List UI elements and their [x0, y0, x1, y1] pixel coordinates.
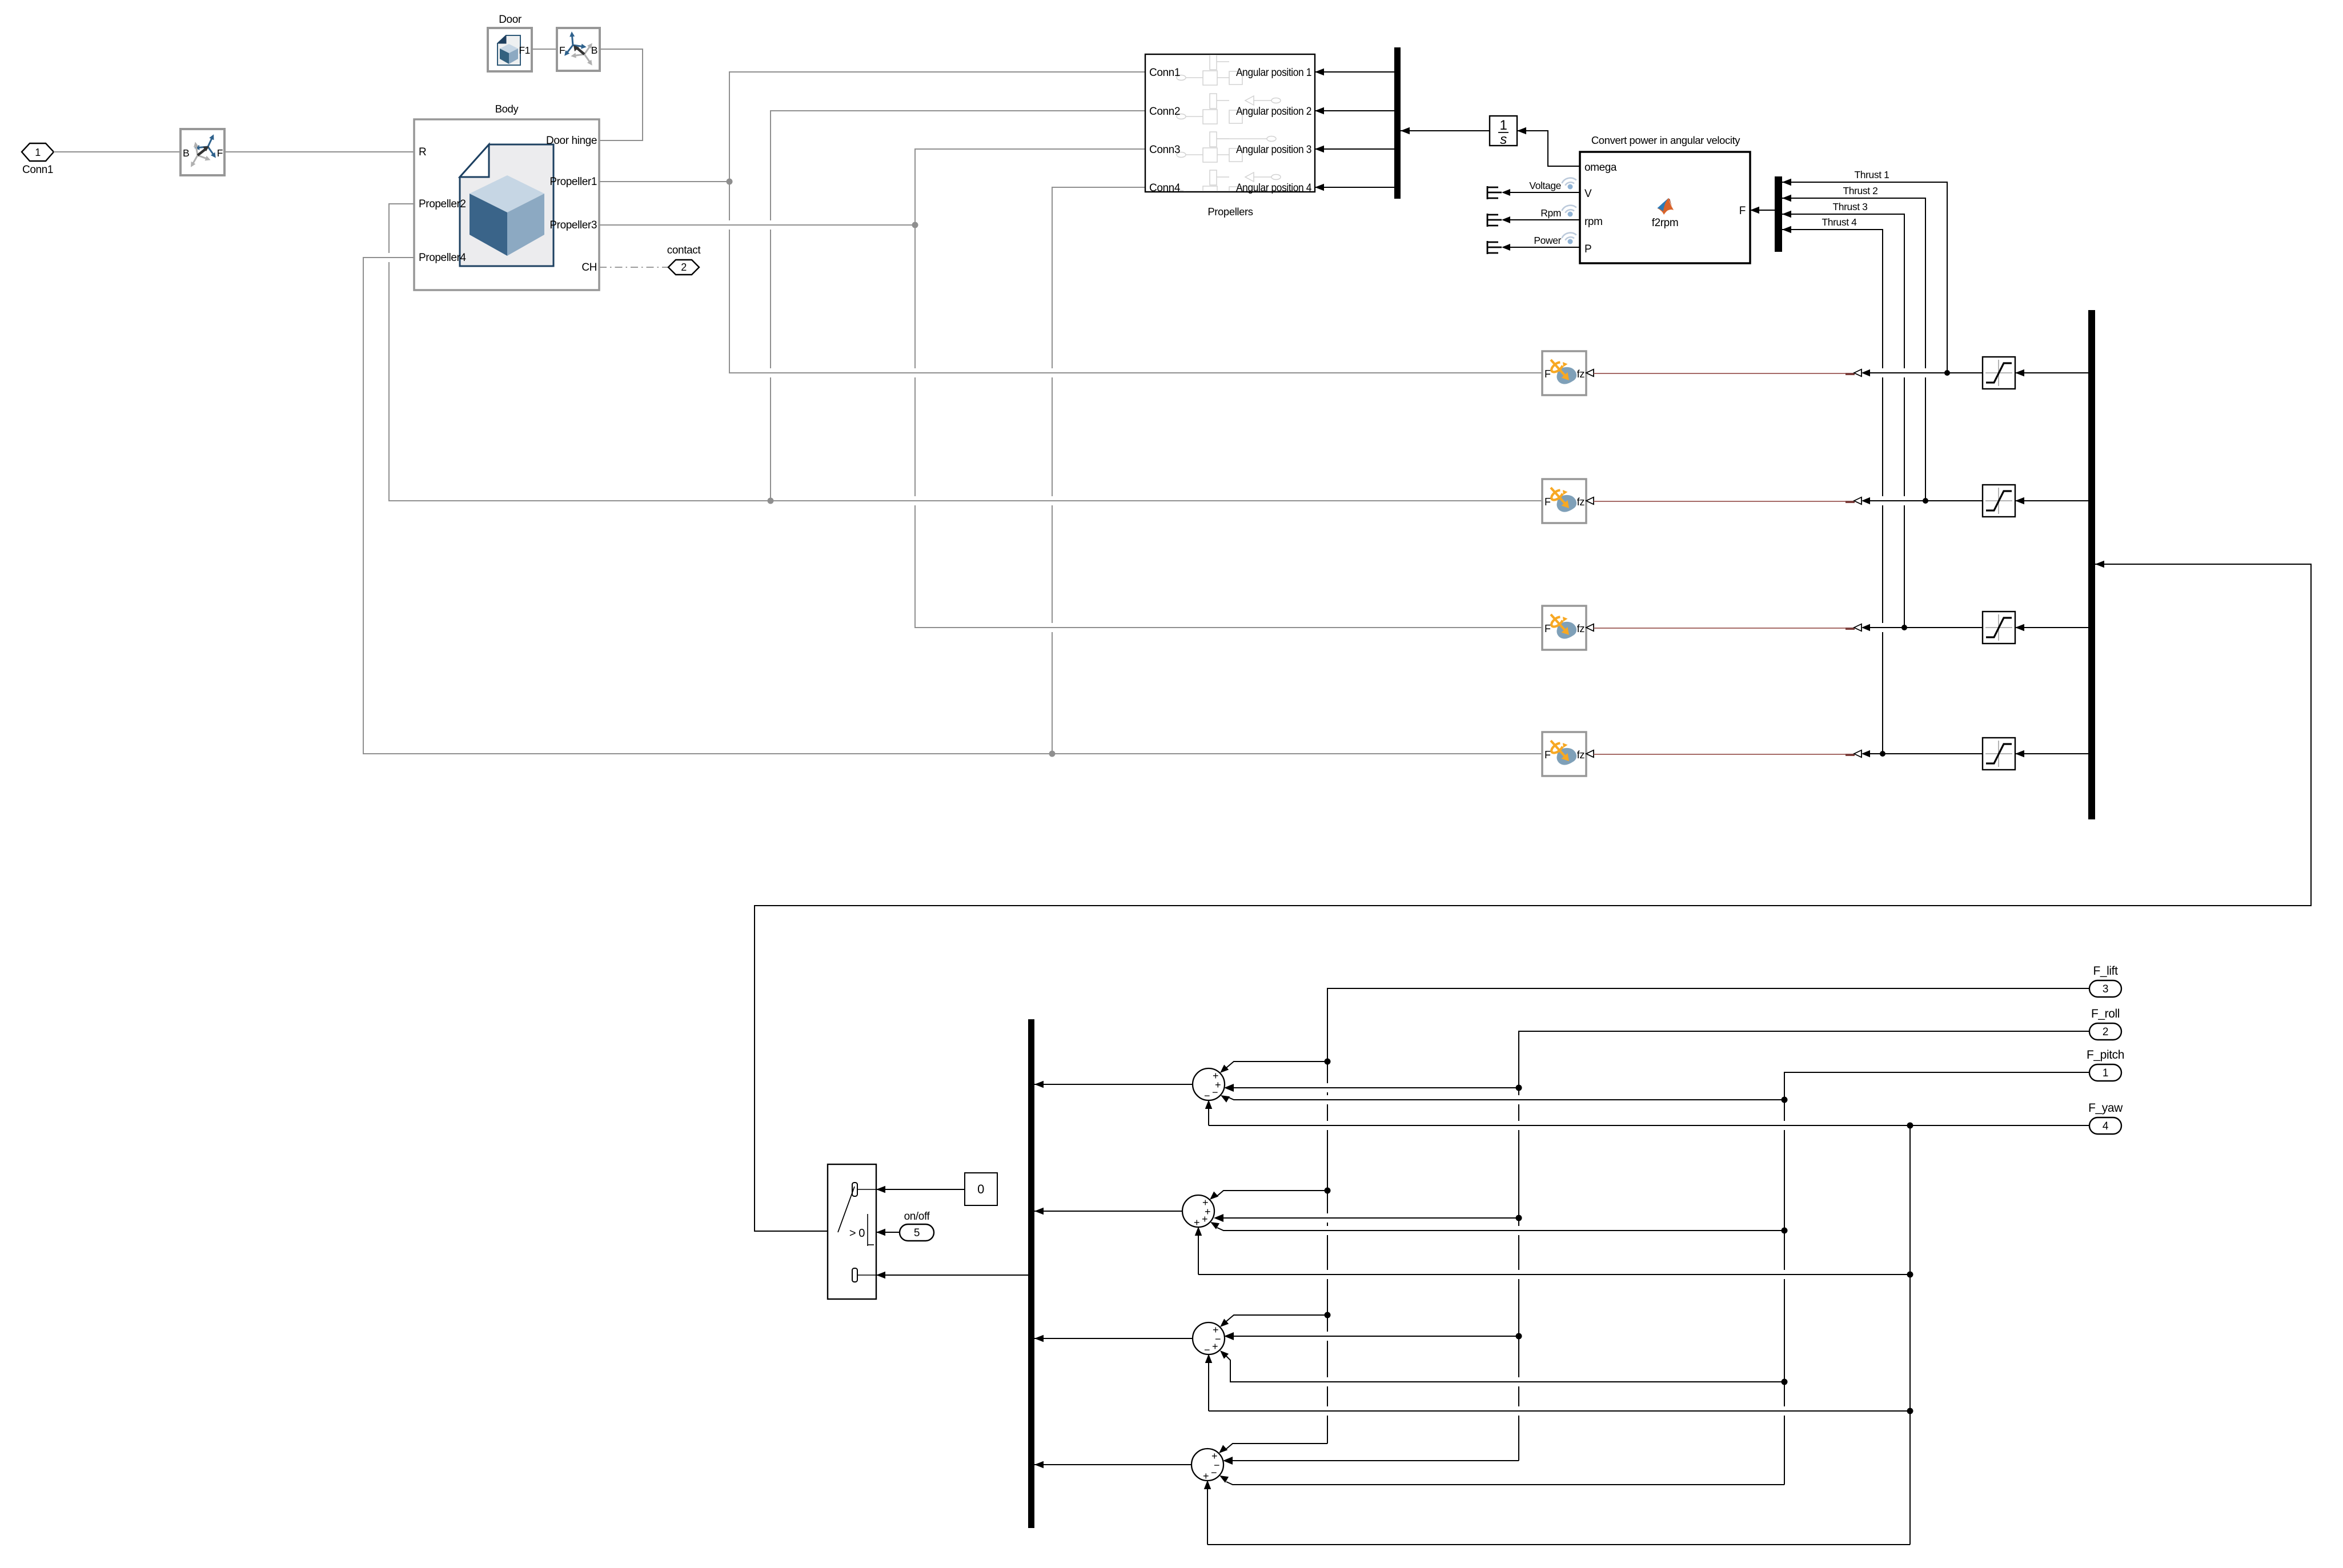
subsystem Door	[488, 14, 532, 71]
junction Propeller1	[727, 179, 733, 185]
wire Thrust 2	[1782, 198, 1925, 501]
terminator symbol Voltage	[1487, 186, 1502, 199]
line hop	[1924, 368, 1927, 377]
wire sum1 right input	[1233, 1087, 1519, 1088]
svg-text:F_roll: F_roll	[2091, 1007, 2120, 1020]
svg-text:−: −	[1211, 1467, 1217, 1478]
svg-text:contact: contact	[667, 244, 701, 256]
svg-text:1: 1	[35, 147, 41, 158]
junction Thrust 3 tap	[1901, 625, 1907, 630]
svg-text:−: −	[1212, 1087, 1218, 1098]
integrator block 1/s	[1490, 116, 1517, 147]
wire sum2 lower-right input	[1217, 1228, 1784, 1231]
wire Propeller1 trunk	[599, 181, 729, 182]
wire sum2 top input	[1216, 1191, 1327, 1197]
line hop	[1783, 1121, 1786, 1130]
wire joint J2 B to Body Door hinge	[599, 49, 643, 140]
line hop	[1518, 1226, 1520, 1235]
svg-text:4: 4	[2103, 1120, 2109, 1132]
physical-signal port fz1	[1586, 369, 1594, 377]
wire Angular position 4 from demux	[1315, 187, 1394, 188]
terminator symbol Power	[1487, 241, 1502, 254]
svg-text:F1: F1	[519, 45, 530, 56]
svg-text:F: F	[1544, 623, 1551, 634]
inport on/off (5)	[900, 1211, 934, 1241]
wire sum2 output to bar	[1034, 1211, 1182, 1212]
junction dot	[1782, 1228, 1788, 1234]
wire sum3 lower-right input	[1226, 1356, 1784, 1382]
svg-text:R: R	[419, 146, 426, 158]
wire sum3 bottom input	[1208, 1356, 1209, 1411]
svg-text:F_lift: F_lift	[2093, 964, 2118, 978]
line hop	[1326, 1406, 1329, 1416]
line hop	[388, 253, 391, 262]
line hop	[1881, 623, 1884, 632]
physical-signal port fz3	[1586, 624, 1594, 632]
outport F_lift (3)	[2089, 964, 2121, 997]
svg-text:−: −	[1204, 1344, 1210, 1356]
port contact (conserving port 2)	[667, 244, 701, 275]
svg-text:Conn1: Conn1	[22, 164, 53, 176]
wire on/off to switch control	[876, 1232, 900, 1233]
physical signal wire fz4	[1594, 754, 1854, 755]
outport F_pitch (1)	[2087, 1048, 2124, 1081]
wire demux from integrator 1/s	[1401, 130, 1490, 131]
MATLAB function block f2rpm (Convert power in angular velocity)	[1580, 134, 1750, 263]
line hop	[1326, 1226, 1329, 1235]
wireless badge Rpm	[1561, 204, 1577, 213]
line hop	[1518, 1406, 1520, 1416]
line hop	[1326, 1095, 1329, 1104]
line hop	[1881, 368, 1884, 377]
junction Propeller2	[768, 498, 774, 504]
svg-text:−: −	[1204, 1090, 1210, 1101]
svg-text:2: 2	[2103, 1026, 2108, 1038]
svg-text:omega: omega	[1584, 162, 1617, 174]
line hop	[1051, 368, 1054, 377]
simulink-PS converter arrows row 2	[1854, 497, 1861, 505]
line hop	[1518, 1377, 1520, 1386]
line hop	[1518, 1121, 1520, 1130]
wire sum3 right input	[1233, 1336, 1519, 1337]
svg-text:rpm: rpm	[1584, 216, 1603, 228]
svg-text:V: V	[1584, 188, 1592, 200]
svg-text:Conn2: Conn2	[1149, 106, 1180, 118]
svg-text:3: 3	[2103, 983, 2108, 995]
svg-text:1: 1	[2103, 1067, 2108, 1079]
terminator symbol Rpm	[1487, 214, 1502, 227]
wire saturation 3 output	[1870, 627, 1983, 628]
svg-text:+: +	[1212, 1341, 1218, 1352]
svg-text:B: B	[183, 147, 189, 159]
svg-text:Thrust 3: Thrust 3	[1833, 201, 1868, 212]
svg-text:F: F	[1544, 496, 1551, 508]
wire Propeller2 trunk	[389, 204, 1542, 501]
wire sum1 lower-right input	[1227, 1097, 1784, 1100]
wire f2rpm Rpm tap to terminator	[1508, 219, 1580, 220]
svg-text:> 0: > 0	[849, 1227, 865, 1240]
svg-text:0: 0	[977, 1182, 984, 1196]
svg-text:Thrust 4: Thrust 4	[1822, 216, 1857, 228]
svg-text:Door hinge: Door hinge	[546, 135, 597, 147]
line hop	[1903, 496, 1906, 505]
junction dot	[1782, 1379, 1788, 1385]
sum block 2	[1182, 1195, 1214, 1227]
line hop	[1903, 368, 1906, 377]
line hop	[1326, 1332, 1329, 1341]
svg-text:F: F	[1544, 368, 1551, 380]
wire saturation 1 input from bus bar	[2015, 372, 2088, 373]
joint J2 (rigid transform F-B)	[557, 28, 600, 71]
line hop	[769, 220, 772, 230]
junction dot F_yaw	[1907, 1272, 1913, 1278]
wire saturation 4 input from bus bar	[2015, 753, 2088, 754]
svg-text:1: 1	[1500, 118, 1507, 133]
svg-text:Conn3: Conn3	[1149, 144, 1180, 156]
junction dot	[1516, 1085, 1522, 1091]
line hop	[1051, 496, 1054, 505]
wire F_yaw distribution	[1910, 1125, 2089, 1545]
wire integrator from f2rpm omega	[1517, 131, 1580, 166]
svg-text:B: B	[591, 45, 597, 56]
junction Thrust 2 tap	[1923, 498, 1928, 504]
svg-text:Power: Power	[1534, 235, 1561, 246]
svg-text:Conn4: Conn4	[1149, 182, 1181, 194]
physical signal wire fz2	[1594, 501, 1854, 502]
saturation block 1	[1983, 357, 2015, 389]
svg-text:F: F	[1544, 749, 1551, 761]
line hop	[1326, 1083, 1329, 1092]
line hop	[914, 368, 917, 377]
wire saturation 2 output	[1870, 500, 1983, 501]
junction dot	[1516, 1215, 1522, 1221]
external force block F4	[1542, 732, 1586, 776]
wire Angular position 2 from demux	[1315, 110, 1394, 111]
joint J1 (rigid transform B-F)	[180, 129, 224, 175]
wire F_roll distribution	[1519, 1031, 2089, 1461]
line hop	[1326, 1270, 1329, 1279]
wire Door F1 to joint J2	[532, 49, 557, 50]
line hop	[914, 496, 917, 505]
svg-text:Propeller4: Propeller4	[419, 252, 466, 264]
saturation block 4	[1983, 738, 2015, 770]
svg-text:Propellers: Propellers	[1207, 206, 1253, 218]
constant block 0	[965, 1173, 997, 1205]
junction Thrust 4 tap	[1880, 751, 1885, 757]
wire F_pitch distribution	[1784, 1072, 2089, 1485]
svg-text:CH: CH	[581, 262, 597, 274]
svg-text:P: P	[1584, 243, 1591, 255]
wire Propeller4 trunk	[363, 258, 1542, 754]
thrust mux bar	[1775, 176, 1782, 252]
sum mux bar (bottom)	[1028, 1019, 1034, 1528]
physical-signal port fz4	[1586, 750, 1594, 758]
thrust distribution bus bar (right)	[2088, 310, 2095, 819]
saturation block 2	[1983, 485, 2015, 517]
subsystem Body	[414, 103, 599, 290]
line hop	[1518, 1095, 1520, 1104]
wire saturation 4 output	[1870, 753, 1983, 754]
junction dot	[1516, 1333, 1522, 1340]
demux bar (angular positions)	[1394, 47, 1401, 199]
junction Propeller4	[1049, 751, 1056, 757]
svg-text:Angular position 3: Angular position 3	[1236, 144, 1311, 156]
simulink-PS converter arrows row 4	[1854, 750, 1861, 758]
svg-text:Door: Door	[499, 14, 522, 26]
wire sum4 bottom input	[1207, 1482, 1208, 1545]
svg-text:fz: fz	[1577, 749, 1585, 761]
outport F_roll (2)	[2089, 1007, 2121, 1040]
line hop	[769, 368, 772, 377]
svg-text:Propeller1: Propeller1	[549, 176, 597, 188]
wire Thrust 3	[1782, 214, 1904, 628]
external force block F3	[1542, 606, 1586, 650]
svg-text:Propeller2: Propeller2	[419, 198, 466, 210]
sum block 1	[1193, 1068, 1225, 1100]
wire sum4 lower-right input	[1226, 1482, 1784, 1485]
svg-text:F: F	[217, 147, 223, 159]
wire joint J1 to Body R	[224, 151, 414, 152]
svg-text:fz: fz	[1577, 368, 1585, 380]
port Conn1 (physical conserving port 1)	[22, 143, 54, 176]
junction dot	[1325, 1188, 1331, 1194]
wire switch output loop to bus bar	[755, 564, 2311, 1231]
physical-signal port fz2	[1586, 497, 1594, 505]
wire bus bar to switch data2	[876, 1274, 1028, 1276]
sum block 3	[1193, 1322, 1225, 1354]
wire sum1 output to bar	[1034, 1084, 1193, 1085]
wire sum4 output to bar	[1034, 1464, 1191, 1465]
svg-text:5: 5	[914, 1227, 920, 1239]
wire constant to switch	[876, 1189, 965, 1190]
svg-text:Thrust 1: Thrust 1	[1855, 169, 1889, 180]
svg-text:on/off: on/off	[904, 1211, 930, 1223]
junction Propeller3	[912, 222, 918, 228]
junction dot	[1782, 1097, 1788, 1103]
junction dot	[1325, 1059, 1331, 1065]
wire Propeller3 trunk	[599, 224, 915, 226]
junction dot	[1325, 1312, 1331, 1318]
line hop	[728, 220, 731, 230]
wire saturation 3 input from bus bar	[2015, 627, 2088, 628]
svg-text:fz: fz	[1577, 496, 1585, 508]
wire sum3 output to bar	[1034, 1338, 1193, 1339]
svg-text:s: s	[1500, 132, 1507, 147]
svg-text:2: 2	[681, 262, 687, 273]
line hop	[1783, 1270, 1786, 1279]
wire saturation 1 output	[1870, 372, 1983, 373]
wire f2rpm Power tap to terminator	[1508, 247, 1580, 248]
svg-text:F: F	[1739, 205, 1746, 217]
sum block 4	[1191, 1449, 1223, 1481]
svg-text:Thrust 2: Thrust 2	[1843, 185, 1878, 196]
wire Angular position 3 from demux	[1315, 148, 1394, 150]
saturation block 3	[1983, 612, 2015, 644]
wire saturation 2 input from bus bar	[2015, 500, 2088, 501]
svg-text:F_yaw: F_yaw	[2088, 1101, 2123, 1115]
junction dot F_yaw	[1907, 1123, 1913, 1129]
line hop	[1326, 1213, 1329, 1223]
svg-text:Conn1: Conn1	[1149, 67, 1180, 79]
wire sum2 right input	[1222, 1217, 1519, 1219]
wire F_lift distribution	[1327, 988, 2089, 1444]
svg-text:Rpm: Rpm	[1540, 207, 1561, 219]
line hop	[1326, 1121, 1329, 1130]
external force block F2	[1542, 479, 1586, 523]
wire sum4 top input	[1225, 1444, 1327, 1450]
svg-text:Convert power in angular veloc: Convert power in angular velocity	[1591, 134, 1740, 146]
simulink-PS converter arrows row 3	[1854, 624, 1861, 632]
wire f2rpm F from thrust mux	[1750, 210, 1775, 211]
physical signal wire fz1	[1594, 373, 1854, 374]
line hop	[1051, 623, 1054, 632]
outport F_yaw (4)	[2088, 1101, 2123, 1134]
line hop	[1326, 1377, 1329, 1386]
svg-text:F: F	[559, 45, 565, 56]
svg-text:+: +	[1194, 1217, 1199, 1228]
wire Thrust 1	[1782, 182, 1947, 373]
svg-text:Propeller3: Propeller3	[549, 219, 597, 231]
wire Thrust 4	[1782, 230, 1883, 754]
external force block F1	[1542, 351, 1586, 395]
switch block	[828, 1164, 876, 1299]
svg-text:fz: fz	[1577, 623, 1585, 634]
wire sum4 right input	[1231, 1460, 1519, 1461]
wireless badge Power	[1561, 231, 1577, 240]
simulink-PS converter arrows row 1	[1854, 369, 1861, 377]
svg-text:Angular position 1: Angular position 1	[1236, 67, 1311, 79]
svg-text:Angular position 4: Angular position 4	[1236, 182, 1312, 194]
line hop	[1783, 1406, 1786, 1416]
svg-text:Angular position 2: Angular position 2	[1236, 106, 1311, 118]
line hop	[1881, 496, 1884, 505]
junction Thrust 1 tap	[1944, 370, 1950, 376]
wire sum1 bottom input	[1208, 1101, 1209, 1125]
svg-text:+: +	[1203, 1470, 1209, 1482]
svg-text:f2rpm: f2rpm	[1652, 217, 1679, 229]
line hop	[1518, 1270, 1520, 1279]
wire sum1 top input	[1226, 1062, 1327, 1068]
svg-text:F_pitch: F_pitch	[2087, 1048, 2124, 1062]
physical signal wire fz3	[1594, 628, 1854, 629]
svg-text:Body: Body	[495, 103, 519, 115]
wire f2rpm Voltage tap to terminator	[1508, 192, 1580, 193]
wire Body CH to contact port (dash-dot)	[599, 267, 668, 268]
junction dot F_yaw	[1907, 1408, 1913, 1414]
wire Angular position 1 from demux	[1315, 71, 1394, 73]
wireless badge Voltage	[1561, 176, 1577, 186]
wire sum2 bottom input	[1198, 1228, 1199, 1274]
wire Conn1 to joint J1	[54, 151, 180, 152]
svg-text:+: +	[1202, 1213, 1207, 1225]
svg-text:Voltage: Voltage	[1529, 180, 1561, 191]
wire sum3 top input	[1226, 1315, 1327, 1321]
